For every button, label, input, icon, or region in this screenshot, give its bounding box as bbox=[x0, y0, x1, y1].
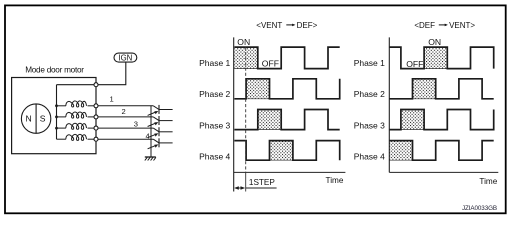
VENT-DEF vertical axis bbox=[233, 37, 235, 191]
svg-text:Time: Time bbox=[326, 176, 344, 185]
svg-text:N: N bbox=[25, 114, 31, 124]
DEF-VENT time axis bbox=[389, 171, 498, 173]
svg-text:ON: ON bbox=[428, 37, 441, 47]
svg-text:Phase 3: Phase 3 bbox=[354, 121, 385, 131]
mode door motor box bbox=[12, 78, 96, 154]
coil L3 bbox=[57, 123, 95, 129]
phase 3 dotted ON-pulse fill (VENT-DEF) bbox=[258, 110, 281, 130]
transistor Q2 bbox=[148, 116, 173, 127]
1STEP dimension arrows bbox=[234, 186, 277, 189]
terminal 2 bbox=[94, 115, 98, 119]
svg-text:3: 3 bbox=[134, 120, 138, 129]
phase 3 waveform (VENT-DEF) bbox=[234, 110, 339, 130]
wire 2 bbox=[98, 116, 153, 118]
transistor Q4 bbox=[148, 138, 173, 149]
coil L4 bbox=[57, 134, 95, 140]
coil L1 bbox=[57, 101, 95, 107]
VENT-DEF time axis bbox=[234, 171, 346, 173]
svg-text:OFF: OFF bbox=[406, 59, 423, 69]
svg-text:ON: ON bbox=[237, 37, 250, 47]
svg-text:IGN: IGN bbox=[118, 53, 132, 62]
wire 1 bbox=[98, 105, 153, 107]
svg-text:Phase 1: Phase 1 bbox=[354, 58, 385, 68]
phase 1 waveform (DEF-VENT) bbox=[389, 47, 493, 69]
svg-text:4: 4 bbox=[146, 131, 150, 140]
wire to IGN bbox=[98, 62, 126, 84]
svg-text:<VENT: <VENT bbox=[256, 21, 282, 30]
title VENT to DEF bbox=[256, 21, 317, 30]
terminal 1 bbox=[94, 104, 98, 108]
svg-text:S: S bbox=[40, 114, 46, 124]
transistor Q1 bbox=[148, 105, 173, 116]
phase 2 waveform (VENT-DEF) bbox=[234, 79, 339, 99]
junction on bus bbox=[55, 104, 58, 107]
1 step dashed marker bbox=[245, 47, 247, 173]
phase 3 waveform (DEF-VENT) bbox=[389, 110, 493, 130]
svg-text:Phase 3: Phase 3 bbox=[199, 121, 230, 131]
svg-text:JZIA0033GB: JZIA0033GB bbox=[462, 205, 497, 212]
phase 2 waveform (DEF-VENT) bbox=[389, 79, 493, 99]
transistor Q3 bbox=[148, 127, 173, 138]
terminal: common bbox=[94, 83, 98, 87]
phase 2 dotted ON-pulse fill (DEF-VENT) bbox=[413, 79, 436, 99]
svg-text:Mode door motor: Mode door motor bbox=[25, 65, 84, 74]
terminal 4 bbox=[94, 137, 98, 141]
phase 1 dotted ON-pulse fill (DEF-VENT) bbox=[424, 47, 447, 69]
svg-text:Time: Time bbox=[479, 177, 497, 186]
svg-text:<DEF: <DEF bbox=[414, 21, 435, 30]
svg-text:2: 2 bbox=[122, 107, 126, 116]
common bus wire bbox=[56, 85, 58, 140]
terminal 3 bbox=[94, 126, 98, 130]
phase 4 dotted ON-pulse fill (VENT-DEF) bbox=[270, 141, 293, 161]
svg-text:Phase 2: Phase 2 bbox=[354, 89, 385, 99]
wire 4 bbox=[98, 138, 153, 140]
wire common feed bbox=[57, 84, 95, 86]
driver common line bbox=[150, 106, 152, 157]
phase 4 waveform (VENT-DEF) bbox=[234, 141, 339, 161]
IGN supply symbol bbox=[114, 53, 137, 62]
phase 3 dotted ON-pulse fill (DEF-VENT) bbox=[401, 110, 424, 130]
svg-text:VENT>: VENT> bbox=[449, 21, 475, 30]
svg-text:Phase 4: Phase 4 bbox=[354, 151, 385, 161]
svg-text:Phase 4: Phase 4 bbox=[199, 151, 230, 161]
ground (body ground) bbox=[145, 157, 156, 161]
phase 4 waveform (DEF-VENT) bbox=[389, 141, 493, 161]
DEF-VENT vertical axis bbox=[388, 37, 390, 172]
svg-text:Phase 2: Phase 2 bbox=[199, 89, 230, 99]
phase 1 waveform (VENT-DEF) bbox=[234, 47, 339, 69]
phase 4 dotted ON-pulse fill (DEF-VENT) bbox=[389, 141, 412, 161]
svg-text:1STEP: 1STEP bbox=[249, 178, 275, 187]
junction on bus bbox=[55, 127, 58, 130]
svg-text:OFF: OFF bbox=[262, 58, 279, 68]
svg-text:1: 1 bbox=[110, 95, 114, 104]
coil L2 bbox=[57, 112, 95, 118]
phase 1 dotted ON-pulse fill (VENT-DEF) bbox=[234, 47, 257, 69]
svg-text:Phase 1: Phase 1 bbox=[199, 58, 230, 68]
wire 3 bbox=[98, 127, 153, 129]
motor M (N/S rotor) bbox=[21, 104, 50, 133]
junction on bus bbox=[55, 116, 58, 119]
svg-text:DEF>: DEF> bbox=[297, 21, 318, 30]
title DEF to VENT bbox=[414, 21, 475, 30]
phase 2 dotted ON-pulse fill (VENT-DEF) bbox=[246, 79, 269, 99]
